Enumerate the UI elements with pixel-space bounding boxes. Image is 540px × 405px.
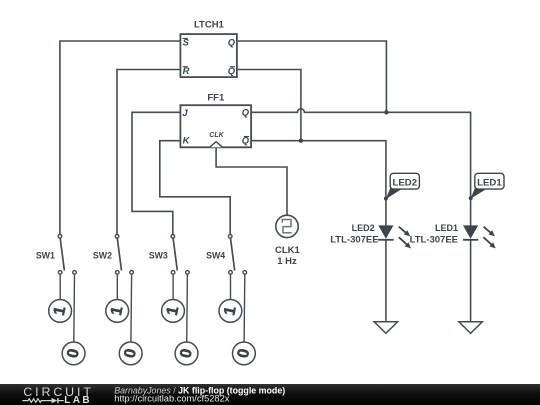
net label LED2 (384, 173, 420, 200)
LED1 cathode bar (463, 239, 478, 241)
wire LED2 cathode to ground (385, 240, 387, 322)
wire to SW2 "1" source (116, 274, 118, 299)
wire SW2 to LTCH1 R (117, 70, 180, 235)
wire to SW1 "0" source (73, 274, 76, 341)
svg-text:LED1: LED1 (435, 223, 458, 233)
wire to SW2 "0" source (130, 274, 133, 341)
svg-text:LTL-307EE: LTL-307EE (330, 234, 378, 245)
wire LED1 cathode to ground (470, 240, 472, 322)
logic low source SW2 "0" (119, 342, 142, 365)
LED LED2 (330, 223, 411, 248)
SW3 throw terminal 1 (171, 271, 175, 275)
CircuitLab logo (22, 385, 94, 405)
svg-text:Q: Q (228, 37, 236, 48)
wire CLK1 to FF1 CLK (216, 147, 287, 215)
svg-text:CLK1: CLK1 (275, 245, 301, 256)
svg-text:SW3: SW3 (149, 251, 168, 261)
SW4 lever (231, 238, 235, 270)
wire SW3 to FF1 J (132, 112, 180, 234)
SW1 throw terminal 0 (73, 271, 77, 275)
wire to SW3 "0" source (186, 274, 189, 341)
logic low source SW4 "0" (233, 342, 256, 365)
footer bar (0, 384, 540, 405)
svg-text:Q: Q (242, 107, 250, 118)
LED2 flag tail (386, 187, 402, 200)
LED2 emission arrows (399, 227, 406, 233)
svg-text:http://circuitlab.com/cf5282x: http://circuitlab.com/cf5282x (114, 394, 230, 404)
LED2 flag anchor dot (384, 197, 388, 201)
LED1 anode triangle (463, 225, 478, 238)
logic high source SW3 "1" (162, 300, 185, 323)
wire to SW4 "0" source (243, 274, 246, 341)
SW4 throw terminal 0 (243, 271, 247, 275)
SW3 common terminal (171, 235, 175, 239)
svg-text:1 Hz: 1 Hz (277, 256, 297, 267)
LED1 flag box (475, 173, 504, 189)
wire FF1 Q to LED1 (with hop) (251, 109, 471, 226)
SW2 throw terminal 0 (130, 271, 134, 275)
SW2 common terminal (115, 235, 119, 239)
clock CLK1 (275, 215, 301, 267)
ground (LED1) (459, 322, 482, 334)
wire LTCH1 Q to node A (237, 41, 386, 112)
wire to SW3 "1" source (172, 274, 174, 299)
clock input triangle (210, 142, 223, 148)
LED2 flag box (390, 173, 419, 189)
ground (LED2) (374, 322, 397, 334)
LED1 flag tail (471, 187, 487, 199)
logic low source SW3 "0" (175, 342, 198, 365)
svg-text:LTCH1: LTCH1 (194, 19, 225, 30)
svg-text:LED1: LED1 (477, 177, 502, 188)
SW2 lever (117, 238, 121, 270)
SW3 lever (173, 238, 177, 270)
latch LTCH1 (180, 19, 237, 77)
SW4 throw terminal 1 (229, 271, 233, 275)
junction node A (384, 110, 388, 114)
SW1 common terminal (58, 235, 62, 239)
square wave glyph (282, 220, 291, 233)
svg-text:SW2: SW2 (93, 251, 112, 261)
logic low source SW1 "0" (62, 342, 85, 365)
svg-text:SW4: SW4 (206, 251, 225, 261)
svg-text:FF1: FF1 (207, 92, 225, 103)
svg-text:J: J (182, 107, 188, 118)
logic high source SW4 "1" (219, 300, 242, 323)
SW2 throw terminal 1 (116, 271, 120, 275)
SW4 common terminal (228, 235, 232, 239)
wire SW4 to FF1 K (160, 141, 230, 235)
switch SW3 (149, 235, 189, 342)
svg-text:SW1: SW1 (36, 251, 55, 261)
SW1 throw terminal 1 (58, 271, 62, 275)
svg-text:LAB: LAB (64, 395, 92, 405)
svg-text:LED2: LED2 (352, 223, 375, 233)
LED2 cathode bar (378, 239, 393, 241)
wire to SW4 "1" source (230, 274, 232, 299)
net label LED1 (469, 173, 504, 200)
wire to SW1 "1" source (59, 274, 61, 299)
svg-text:LTL-307EE: LTL-307EE (410, 234, 458, 245)
svg-text:CLK: CLK (209, 132, 224, 139)
switch SW2 (93, 235, 133, 342)
LED1 flag anchor dot (469, 196, 473, 200)
wire LTCH1 Qbar to node B (237, 70, 301, 141)
SW3 throw terminal 0 (186, 271, 190, 275)
logic high source SW1 "1" (49, 300, 72, 323)
svg-text:LED2: LED2 (393, 177, 418, 188)
wire SW1 to LTCH1 S (60, 41, 180, 234)
LED1 emission arrows (484, 227, 491, 233)
junction node B (299, 139, 303, 143)
LED2 anode triangle (378, 225, 393, 238)
wire FF1 Qbar to LED2 (251, 141, 386, 226)
switch SW4 (206, 235, 246, 342)
flip-flop FF1 (180, 92, 251, 147)
LED LED1 (410, 223, 496, 248)
switch SW1 (36, 235, 76, 342)
logic high source SW2 "1" (106, 300, 129, 323)
SW1 lever (60, 238, 64, 270)
